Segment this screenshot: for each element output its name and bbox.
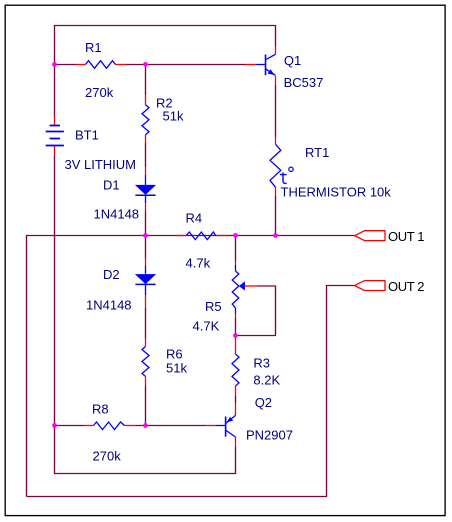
svg-text:51k: 51k	[163, 109, 184, 124]
battery BT1	[46, 115, 64, 156]
value 51k	[163, 109, 184, 124]
value 8.2K	[253, 373, 280, 388]
wire OUT1 row	[27, 236, 355, 497]
wire node to R3	[235, 336, 237, 339]
junction D1-R4-D2 node	[143, 233, 148, 238]
wire Q1 emitter to RT1	[275, 85, 277, 137]
svg-text:BT1: BT1	[75, 128, 99, 143]
svg-text:RT1: RT1	[305, 145, 329, 160]
value THERMISTOR 10k	[281, 185, 392, 200]
svg-text:Q1: Q1	[284, 53, 301, 68]
junction R8 left node	[52, 423, 57, 428]
label R6	[166, 347, 183, 362]
svg-text:8.2K: 8.2K	[253, 373, 280, 388]
connector OUT 1	[355, 231, 385, 241]
svg-text:Q2: Q2	[255, 395, 272, 410]
junction R1-R2-Q1 base node	[143, 62, 148, 67]
svg-text:4.7K: 4.7K	[193, 319, 220, 334]
value 1N4148 (D1)	[94, 207, 140, 222]
potentiometer R5	[232, 261, 257, 319]
junction R5-R3 node	[233, 333, 238, 338]
label R4	[186, 211, 203, 226]
label R8	[92, 402, 109, 417]
value 1N4148 (D2)	[86, 298, 132, 313]
junction RT1-OUT1 node	[273, 233, 278, 238]
resistor R8	[84, 422, 137, 430]
value 270k	[85, 85, 114, 100]
svg-text:THERMISTOR 10k: THERMISTOR 10k	[281, 185, 392, 200]
svg-text:51k: 51k	[166, 361, 187, 376]
value 3V LITHIUM	[65, 157, 137, 172]
svg-text:OUT 1: OUT 1	[388, 229, 424, 244]
diode D2	[135, 258, 156, 308]
svg-text:R1: R1	[85, 40, 102, 55]
wire R8 row left	[55, 425, 85, 427]
wire R5 bottom to node	[235, 318, 237, 336]
junction R4-R5 node	[233, 233, 238, 238]
label R2	[156, 96, 173, 111]
wire bottom run to OUT2 riser	[27, 286, 355, 497]
svg-text:3V LITHIUM: 3V LITHIUM	[65, 157, 137, 172]
resistor R1	[76, 61, 127, 69]
wire D2 to R6	[145, 308, 147, 338]
connector OUT 2	[355, 281, 386, 291]
junction battery top node	[52, 62, 57, 67]
value PN2907	[246, 428, 293, 443]
wire R5 wiper loop	[236, 286, 276, 336]
label D2	[103, 267, 120, 282]
wire base row mid (R1 to node to Q1 base)	[127, 64, 246, 66]
label R1	[85, 40, 102, 55]
thermistor RT1	[270, 137, 293, 196]
svg-text:PN2907: PN2907	[246, 428, 293, 443]
wire top rail	[55, 26, 276, 65]
diode D1	[135, 167, 156, 212]
wire R6 to R8 node	[145, 386, 147, 426]
label RT1	[305, 145, 329, 160]
label BT1	[75, 128, 99, 143]
svg-text:R6: R6	[166, 347, 183, 362]
junction R6-R8 node	[143, 423, 148, 428]
label R3	[253, 356, 270, 371]
transistor Q1	[245, 46, 276, 85]
value 270k (R8)	[93, 449, 122, 464]
wire left rail lower (battery to R8 node and bottom corner)	[55, 156, 236, 474]
label OUT 1	[388, 229, 424, 244]
label R5	[205, 299, 222, 314]
resistor R3	[232, 338, 239, 396]
resistor R4	[176, 232, 226, 240]
wire RT1 to OUT1 row node	[275, 196, 277, 236]
wire R8 row right to Q2 base	[136, 425, 206, 427]
resistor R6	[142, 338, 149, 386]
label Q1	[284, 53, 301, 68]
wire base row left (node to R1)	[55, 64, 77, 66]
svg-text:1N4148: 1N4148	[94, 207, 140, 222]
svg-text:1N4148: 1N4148	[86, 298, 132, 313]
svg-text:D1: D1	[103, 178, 120, 193]
svg-text:270k: 270k	[85, 85, 114, 100]
value 4.7k	[186, 256, 211, 271]
wire left rail upper (node to battery)	[54, 65, 56, 116]
wire R2 to D1	[145, 143, 147, 167]
svg-text:270k: 270k	[93, 449, 122, 464]
svg-text:D2: D2	[103, 267, 120, 282]
wire D1 to R4 row node	[145, 211, 147, 235]
svg-text:OUT 2: OUT 2	[388, 279, 424, 294]
transistor Q2	[205, 403, 236, 447]
label D1	[103, 178, 120, 193]
wire R4 node to R5	[235, 236, 237, 262]
wire node to D2	[145, 236, 147, 259]
svg-text:R3: R3	[253, 356, 270, 371]
value BC537	[284, 75, 324, 90]
wire R3 to Q2 emitter	[235, 396, 237, 403]
svg-text:R4: R4	[186, 211, 203, 226]
svg-text:4.7k: 4.7k	[186, 256, 211, 271]
wire chain D1 upper (node to R2)	[95, 65, 146, 96]
label Q2	[255, 395, 272, 410]
svg-text:R8: R8	[92, 402, 109, 417]
label OUT 2	[388, 279, 424, 294]
svg-text:R5: R5	[205, 299, 222, 314]
svg-text:BC537: BC537	[284, 75, 324, 90]
value 51k (R6)	[166, 361, 187, 376]
value 4.7K	[193, 319, 220, 334]
resistor R2	[142, 95, 149, 143]
